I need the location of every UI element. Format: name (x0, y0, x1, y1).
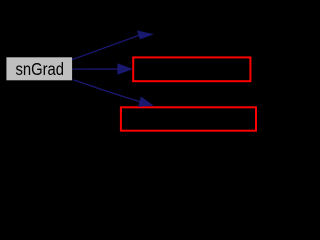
edge snGrad to top node (72, 35, 140, 60)
arrowhead of edge to middle node (117, 63, 132, 74)
svg-text:snGrad: snGrad (16, 59, 65, 79)
node bottom (red box) (121, 107, 256, 130)
node top (hidden, black border) (155, 19, 255, 44)
arrowhead of edge to top node (137, 30, 154, 39)
edge snGrad to bottom node (74, 80, 141, 102)
edge snGrad to middle node (73, 68, 120, 70)
node snGrad (current node, grey) (6, 57, 72, 80)
node middle (red box) (133, 57, 250, 81)
arrowhead of edge to bottom node (138, 97, 154, 107)
